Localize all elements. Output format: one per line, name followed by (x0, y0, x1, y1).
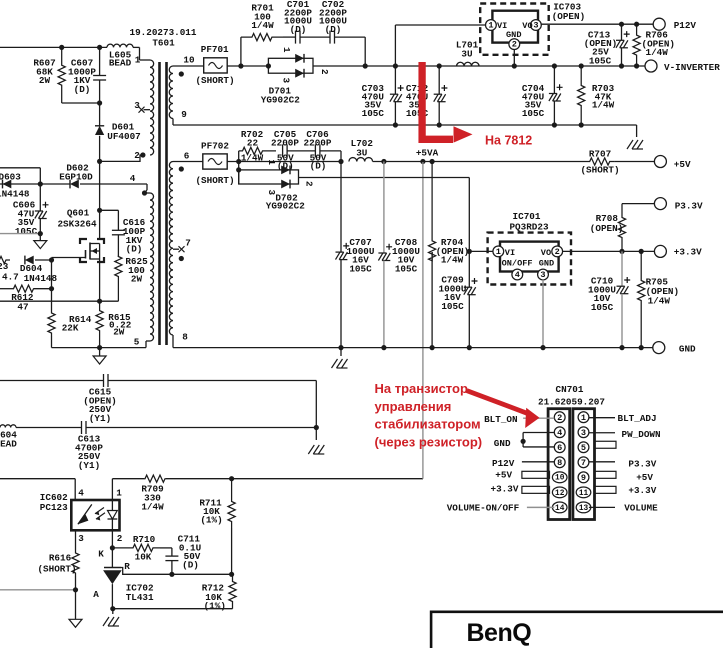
wire IC602 pin2 down (111, 530, 113, 567)
svg-text:V-INVERTER: V-INVERTER (664, 62, 720, 73)
wire TL431 anode rail (113, 608, 233, 610)
CN701 pin 7 (578, 457, 589, 468)
diode D603 1N4148 (0, 183, 70, 185)
svg-text:+5V: +5V (495, 470, 512, 481)
wire VOLUME (589, 506, 615, 508)
fuse PF701 (204, 58, 228, 73)
capacitor C606 (39, 184, 41, 211)
wire feedback line left (0, 478, 75, 480)
svg-text:4: 4 (515, 270, 520, 280)
svg-text:K: K (98, 549, 104, 560)
svg-text:GND: GND (539, 259, 554, 269)
svg-text:PF702: PF702 (201, 141, 229, 152)
svg-text:3: 3 (581, 428, 586, 438)
svg-text:105C: 105C (441, 301, 464, 312)
ground symbol C613 (308, 445, 324, 454)
svg-text:10: 10 (183, 55, 195, 66)
CN701 pin 2 (554, 412, 565, 423)
wire IC602 pin1 up (111, 479, 113, 500)
resistor R708 (OPEN) (622, 203, 655, 205)
terminal V-INVERTER (645, 60, 657, 72)
svg-text:(D): (D) (74, 84, 91, 95)
ground symbol primary (99, 348, 101, 356)
wire IC602 pin3 / resistor R616 (75, 530, 77, 550)
svg-text:1/4W: 1/4W (241, 153, 264, 164)
svg-text:+3.3V: +3.3V (674, 247, 702, 258)
capacitor C616 (117, 210, 119, 230)
svg-text:3: 3 (134, 100, 140, 111)
capacitor C607 (97, 45, 102, 50)
wire C702 down to rail (364, 37, 366, 66)
resistor R625 (115, 257, 122, 302)
wire P3.3V pin7 (589, 461, 615, 463)
svg-text:P3.3V: P3.3V (628, 459, 656, 470)
wire C615/C613 junction (315, 381, 317, 441)
resistor R707 (SHORT) (585, 158, 614, 165)
svg-text:1/4W: 1/4W (251, 20, 274, 31)
svg-text:2: 2 (134, 150, 140, 161)
wire R702 branch up (238, 151, 240, 162)
svg-text:4.7: 4.7 (2, 272, 19, 283)
wire top-left rail (0, 46, 107, 48)
svg-text:YG902C2: YG902C2 (266, 201, 305, 212)
svg-text:3: 3 (540, 270, 545, 280)
wire PF702 out (227, 161, 341, 163)
svg-text:R710: R710 (133, 534, 156, 545)
wire BLT_ON (523, 417, 554, 419)
svg-text:UF4007: UF4007 (107, 131, 140, 142)
svg-text:P12V: P12V (492, 458, 515, 469)
svg-text:TL431: TL431 (126, 592, 154, 603)
svg-text:(SHORT): (SHORT) (37, 564, 76, 575)
capacitor C713 (OPEN) (619, 22, 624, 27)
svg-text:+3.3V: +3.3V (491, 484, 519, 495)
resistor R612 (0, 288, 13, 290)
capacitor C702 (300, 36, 330, 38)
svg-text:6: 6 (184, 151, 190, 162)
capacitor C703 (394, 66, 396, 94)
CN701 pin 6 (554, 442, 565, 453)
wire aux box corner (0, 167, 40, 169)
svg-text:5: 5 (581, 443, 586, 453)
wire IC701 VI (469, 250, 493, 252)
svg-text:3U: 3U (461, 49, 472, 60)
capacitor C712 (438, 66, 440, 94)
wire PF701 out (227, 65, 268, 67)
svg-text:2: 2 (319, 69, 330, 75)
wire IC703 GND down (513, 49, 515, 66)
svg-text:(Y1): (Y1) (78, 460, 100, 471)
bus stub +5V left (522, 471, 550, 478)
wire gray off-page C606 (0, 233, 40, 235)
svg-text:2200P: 2200P (304, 138, 332, 149)
CN701 pin 11 (576, 487, 591, 498)
ground symbol TL431 (112, 609, 114, 614)
resistor R607 (59, 45, 64, 50)
svg-text:BLT_ADJ: BLT_ADJ (618, 413, 657, 424)
bus stub +5V right (595, 471, 617, 478)
svg-text:На 7812: На 7812 (485, 134, 532, 148)
wire D601 node down to Q601 drain (99, 161, 101, 240)
terminal P3.3V (654, 198, 666, 210)
svg-text:+5V: +5V (636, 472, 653, 483)
svg-text:Q601: Q601 (67, 208, 90, 219)
svg-text:BEAD: BEAD (109, 58, 132, 69)
CN701 pin 1 (578, 412, 589, 423)
wire D602 to pin 4 (80, 183, 147, 185)
wire GND bracket (523, 432, 554, 434)
svg-text:GND: GND (679, 344, 696, 355)
svg-text:4: 4 (557, 428, 562, 438)
resistor R701 (241, 34, 283, 41)
svg-text:управления: управления (375, 399, 452, 414)
svg-text:На транзистор: На транзистор (375, 381, 468, 396)
wire R607-C607 bottom (62, 102, 100, 104)
svg-text:+3.3V: +3.3V (628, 485, 656, 496)
svg-text:P12V: P12V (674, 20, 697, 31)
svg-text:VOLUME-ON/OFF: VOLUME-ON/OFF (447, 503, 520, 514)
bus stub pin5 (595, 441, 617, 448)
ground symbol rail2 (340, 348, 342, 356)
svg-text:1N4148: 1N4148 (24, 273, 58, 284)
svg-text:7: 7 (581, 458, 586, 468)
svg-text:2: 2 (304, 181, 315, 187)
svg-text:GND: GND (494, 438, 511, 449)
wire IC703 VI (393, 63, 398, 68)
svg-text:BEAD: BEAD (0, 439, 17, 450)
resistor R614 (51, 289, 53, 310)
svg-text:1/4W: 1/4W (648, 296, 671, 307)
resistor R704 (OPEN) (430, 159, 435, 164)
wire C706 down (340, 151, 342, 162)
wire C616 branch (97, 208, 102, 213)
CN701 pin 5 (578, 442, 589, 453)
inductor L701 (437, 63, 442, 68)
svg-text:стабилизатором: стабилизатором (375, 417, 481, 432)
svg-text:(OPEN): (OPEN) (552, 11, 585, 22)
capacitor C707 (340, 162, 342, 253)
capacitor C613 (81, 421, 83, 434)
svg-text:CN701: CN701 (556, 384, 584, 395)
wire IC703 VO to P12V (541, 23, 654, 25)
svg-text:22: 22 (247, 138, 259, 149)
svg-text:(SHORT): (SHORT) (580, 165, 619, 176)
svg-text:105C: 105C (522, 108, 545, 119)
svg-text:BLT_ON: BLT_ON (484, 414, 517, 425)
resistor R705 (OPEN) (639, 249, 644, 254)
ground symbol C606 (34, 241, 47, 249)
svg-text:(SHORT): (SHORT) (195, 175, 234, 186)
wire primary bottom to pin 5 (52, 347, 147, 349)
T601 pin 7 tap (173, 248, 179, 250)
inductor L604 BEAD (0, 425, 16, 428)
CN701 pin 9 (578, 472, 589, 483)
svg-text:12: 12 (555, 490, 565, 498)
svg-text:21.62059.207: 21.62059.207 (538, 397, 605, 408)
CN701 pin 14 (552, 502, 567, 513)
svg-text:1/4W: 1/4W (646, 47, 669, 58)
svg-text:(D): (D) (310, 160, 327, 171)
svg-text:(1%): (1%) (204, 601, 226, 612)
T601 secondary winding pins 10-9 (169, 66, 173, 119)
svg-text:PC123: PC123 (40, 502, 68, 513)
wire D702 out (299, 177, 470, 179)
red arrow to pin 2 (467, 391, 527, 414)
wire TL431 ref (121, 568, 172, 575)
diode D701 YG902C2 (266, 63, 271, 68)
svg-text:R623: R623 (0, 261, 9, 272)
svg-text:105C: 105C (591, 302, 614, 313)
svg-text:19.20273.011: 19.20273.011 (130, 27, 197, 38)
svg-text:105C: 105C (349, 263, 372, 274)
CN701 pin 4 (554, 427, 565, 438)
inductor L605 BEAD (107, 44, 133, 47)
svg-text:R616: R616 (49, 553, 72, 564)
regulator IC703 (OPEN) (480, 4, 549, 55)
svg-text:3: 3 (78, 533, 84, 544)
terminal P12V (653, 18, 665, 30)
wire IC701 GND down (542, 280, 544, 348)
diode D602 EGP10D (70, 180, 79, 189)
terminal +5V (654, 156, 666, 168)
red arrow Na 7812 (422, 62, 453, 139)
svg-text:(1%): (1%) (200, 515, 222, 526)
svg-text:BenQ: BenQ (467, 619, 532, 647)
T601 pin 2 phase dot (140, 152, 145, 157)
svg-text:1: 1 (581, 413, 586, 423)
svg-text:2SK3264: 2SK3264 (57, 219, 96, 230)
capacitor C704 (552, 63, 557, 68)
svg-text:4: 4 (78, 488, 84, 499)
wire gate node vertical (51, 260, 53, 289)
svg-text:1/4W: 1/4W (441, 255, 464, 266)
terminal GND (653, 342, 665, 354)
svg-text:6: 6 (557, 443, 562, 453)
inductor L702 (349, 158, 373, 162)
CN701 pin 12 (552, 487, 567, 498)
T601 primary winding pins 1-2 (139, 47, 141, 60)
resistor R615 (96, 301, 103, 340)
wire pin2 to D601 node (100, 155, 143, 161)
svg-text:5: 5 (134, 337, 140, 348)
T601 secondary winding pins 6-7-8 (169, 162, 173, 335)
svg-text:(D): (D) (182, 559, 199, 570)
wire off-page line y301 (0, 300, 100, 302)
svg-text:2W: 2W (39, 75, 51, 86)
svg-text:2: 2 (117, 533, 123, 544)
svg-text:10K: 10K (135, 552, 152, 563)
svg-text:10: 10 (555, 475, 565, 483)
svg-text:T601: T601 (152, 38, 175, 49)
resistor R706 (OPEN) (634, 22, 639, 27)
CN701 pin 10 (552, 472, 567, 483)
capacitor C706 (287, 150, 315, 152)
svg-text:13: 13 (579, 505, 589, 513)
svg-text:1/4W: 1/4W (592, 100, 615, 111)
svg-text:PF701: PF701 (201, 44, 229, 55)
svg-text:105C: 105C (395, 263, 418, 274)
svg-text:EGP10D: EGP10D (59, 171, 93, 182)
transformer T601 core (158, 62, 161, 345)
CN701 pin 13 (576, 502, 591, 513)
T601 pin 3 tap (144, 109, 151, 111)
capacitor C615 line (0, 380, 104, 382)
resistor R623 stub (0, 256, 10, 263)
svg-text:PW_DOWN: PW_DOWN (622, 429, 661, 440)
wire Q601 source down (99, 259, 101, 301)
svg-text:PQ3RD23: PQ3RD23 (509, 222, 548, 233)
svg-text:ON/OFF: ON/OFF (502, 259, 533, 269)
wire +3.3V line (562, 250, 655, 252)
wire VOLUME-ON/OFF (527, 506, 554, 508)
svg-text:+5VA: +5VA (416, 148, 439, 159)
svg-text:2: 2 (555, 247, 560, 257)
svg-text:22K: 22K (62, 323, 79, 334)
svg-text:1: 1 (496, 247, 501, 257)
capacitor C708 (381, 159, 386, 164)
bus stub +3.3V left (522, 486, 550, 493)
svg-text:2200P: 2200P (271, 138, 299, 149)
T601 primary winding pins 4-5 (150, 193, 154, 341)
terminal +3.3V (654, 245, 666, 257)
wire +5VA rail (373, 161, 585, 163)
CN701 pin 8 (554, 457, 565, 468)
svg-text:7: 7 (185, 238, 191, 249)
svg-text:3: 3 (533, 21, 538, 31)
svg-text:(D): (D) (290, 24, 307, 35)
wire D701 out rail (313, 65, 651, 67)
svg-text:11: 11 (579, 490, 589, 498)
svg-text:(через резистор): (через резистор) (375, 434, 483, 449)
ground symbol R616 (69, 619, 82, 627)
svg-text:1: 1 (488, 21, 493, 31)
wire +5VA feed down (420, 159, 425, 164)
svg-text:8: 8 (557, 458, 562, 468)
resistor R710 (112, 544, 160, 551)
wire gray off-page y590 (0, 589, 76, 591)
capacitor C709 (467, 249, 472, 254)
diode D601 UF4007 (99, 103, 101, 126)
resistor R712 (229, 574, 236, 608)
svg-text:GND: GND (506, 30, 521, 40)
svg-text:47: 47 (17, 302, 28, 313)
resistor R709 (112, 478, 144, 480)
diode D604 1N4148 (25, 256, 34, 265)
connector CN701 body (548, 409, 570, 520)
ground symbol rail1 (636, 125, 638, 137)
svg-text:1: 1 (116, 488, 122, 499)
svg-text:VOLUME: VOLUME (624, 503, 658, 514)
title block frame (431, 612, 723, 648)
resistor R702 (239, 147, 276, 154)
svg-text:1: 1 (135, 55, 141, 66)
svg-text:2W: 2W (113, 327, 125, 338)
svg-text:D603: D603 (0, 172, 21, 183)
svg-text:YG902C2: YG902C2 (261, 94, 300, 105)
svg-text:2: 2 (557, 413, 562, 423)
resistor R711 (229, 476, 234, 481)
svg-text:(D): (D) (325, 24, 342, 35)
capacitor C711 (160, 547, 172, 549)
svg-text:9: 9 (581, 473, 586, 483)
wire BLT_ADJ (589, 417, 615, 419)
svg-text:105C: 105C (589, 55, 612, 66)
svg-text:3U: 3U (356, 147, 367, 158)
svg-text:2W: 2W (131, 274, 143, 285)
svg-text:4: 4 (130, 173, 136, 184)
resistor R703 (579, 63, 584, 68)
wire divider mid (172, 573, 232, 575)
svg-text:(D): (D) (126, 244, 143, 255)
svg-text:1/4W: 1/4W (141, 502, 164, 513)
fuse PF702 (203, 154, 227, 169)
capacitor C710 (621, 251, 623, 286)
wire P12V (522, 461, 554, 463)
diode D702 YG902C2 (238, 162, 240, 185)
capacitor C705 (282, 144, 284, 157)
svg-text:VI: VI (505, 248, 515, 258)
svg-text:1: 1 (281, 47, 292, 53)
CN701 pin 3 (578, 427, 589, 438)
svg-text:P3.3V: P3.3V (675, 200, 703, 211)
svg-text:105C: 105C (15, 226, 38, 237)
wire R625 bottom to source (100, 300, 119, 302)
bus stub +3.3V right (595, 486, 617, 493)
wire gnd rail 2 (173, 347, 653, 349)
svg-text:1N4148: 1N4148 (0, 189, 30, 200)
svg-text:2: 2 (512, 40, 517, 50)
svg-text:R: R (124, 561, 130, 572)
capacitor C701 (295, 31, 297, 44)
svg-text:IC701: IC701 (513, 211, 541, 222)
svg-text:+5V: +5V (674, 159, 691, 170)
wire PW_DOWN (589, 432, 615, 434)
svg-text:(OPEN): (OPEN) (590, 223, 623, 234)
svg-text:1: 1 (266, 160, 277, 166)
svg-text:VO: VO (541, 248, 551, 258)
svg-text:14: 14 (555, 505, 565, 513)
svg-text:8: 8 (182, 332, 188, 343)
wire secondary gnd rail 1 (173, 124, 637, 126)
svg-text:9: 9 (181, 109, 187, 120)
svg-text:3: 3 (281, 78, 292, 84)
svg-text:R707: R707 (589, 149, 611, 160)
svg-text:105C: 105C (362, 108, 385, 119)
svg-text:VO: VO (522, 21, 532, 31)
svg-text:A: A (93, 589, 99, 600)
wire R701 branch up (240, 37, 242, 66)
svg-text:(Y1): (Y1) (89, 413, 111, 424)
svg-text:(SHORT): (SHORT) (195, 75, 234, 86)
